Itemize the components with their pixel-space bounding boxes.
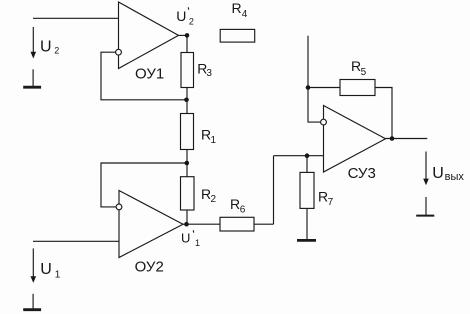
op-amp OU2: [116, 191, 183, 258]
wire OU1 output to node U'2: [179, 34, 188, 36]
wire vertical branch to SU3 inverting input: [308, 36, 321, 122]
svg-text:СУ3: СУ3: [348, 165, 376, 182]
label Uvyh output: [432, 165, 464, 183]
svg-text:7: 7: [328, 197, 334, 208]
op-amp SU3: [321, 106, 386, 173]
svg-text:6: 6: [240, 205, 246, 216]
label U2 input: [40, 39, 59, 56]
wire node U'2 down to R3: [186, 35, 188, 52]
wire node R7 top down to R7: [306, 156, 308, 173]
resistor R2: [181, 177, 195, 210]
resistor R4: [220, 29, 255, 42]
wire R5 to output node: [375, 88, 392, 139]
label R6: [230, 196, 246, 216]
wire feedback OU1 inverting input to node below R3: [101, 52, 187, 100]
node below R3 junction dot: [184, 98, 189, 103]
resistor R7: [300, 172, 314, 208]
node U'1 junction dot: [184, 222, 189, 227]
wire R3 to node below R3: [186, 88, 188, 100]
svg-text:2: 2: [189, 17, 194, 27]
node U'2 junction dot: [185, 33, 190, 38]
svg-text:R: R: [232, 0, 242, 16]
label R7: [318, 189, 334, 209]
ground below U1: [23, 294, 41, 310]
node A junction dot between R1 and R2: [185, 161, 190, 166]
label U'1 node: [181, 230, 200, 248]
wire R1 to node A: [186, 150, 188, 164]
svg-text:R: R: [318, 189, 328, 205]
ground below R7: [297, 239, 316, 242]
svg-text:R: R: [230, 196, 240, 212]
node SU3 output junction dot: [390, 136, 395, 141]
label R4: [232, 0, 248, 20]
svg-text:2: 2: [211, 194, 217, 205]
wire R7 to ground: [306, 208, 308, 239]
node R5 left junction dot: [306, 85, 311, 90]
svg-text:вых: вых: [445, 171, 465, 183]
label R1: [201, 127, 217, 146]
label R2: [201, 186, 217, 205]
svg-text:5: 5: [361, 67, 367, 78]
svg-text:4: 4: [242, 9, 248, 20]
svg-text:U: U: [40, 39, 52, 56]
node output Uvyh arrow: [423, 152, 429, 186]
wire R6 to riser: [254, 223, 274, 225]
wire node to R5: [308, 87, 340, 89]
svg-text:3: 3: [206, 68, 212, 79]
svg-text:1: 1: [211, 135, 217, 146]
svg-text:U: U: [40, 261, 52, 278]
wire riser up to SU3 non-inverting input: [273, 156, 275, 225]
wire node U'1 to R6: [187, 223, 221, 225]
wire node A to R2: [186, 163, 188, 177]
svg-text:ОУ1: ОУ1: [135, 66, 164, 83]
label U'2 node: [176, 7, 194, 26]
svg-text:1: 1: [55, 270, 61, 281]
svg-text:ОУ2: ОУ2: [135, 259, 164, 276]
resistor R6: [220, 217, 254, 231]
svg-text:U: U: [181, 230, 190, 245]
svg-text:U: U: [432, 165, 444, 182]
wire node to R1: [186, 100, 188, 114]
label R5: [351, 58, 367, 78]
wire R2 to node U'1: [186, 210, 188, 224]
wire SU3 output: [386, 138, 428, 140]
svg-text:2: 2: [54, 45, 59, 55]
node input U1 arrow: [31, 248, 37, 283]
wire OU1 non-inverting input from U2: [33, 17, 119, 19]
node R7 top junction dot: [305, 153, 310, 158]
ground below U2: [23, 69, 41, 87]
svg-text:U: U: [176, 8, 186, 24]
label U1 input: [40, 261, 61, 281]
op-amp OU1: [116, 2, 179, 69]
wire OU2 non-inverting input from U1: [33, 240, 119, 242]
wire OU2 output to node U'1: [183, 223, 187, 225]
svg-text:R: R: [351, 58, 361, 74]
ground below Uvyh: [416, 197, 434, 216]
svg-text:1: 1: [195, 238, 200, 248]
node input U2 arrow: [31, 27, 37, 59]
resistor R1: [181, 114, 194, 150]
resistor R3: [181, 53, 194, 88]
wire feedback node A to OU2 inverting input: [101, 163, 187, 207]
wire to SU3 non-inverting input: [274, 155, 324, 157]
label R3: [197, 60, 212, 79]
resistor R5: [340, 80, 375, 96]
